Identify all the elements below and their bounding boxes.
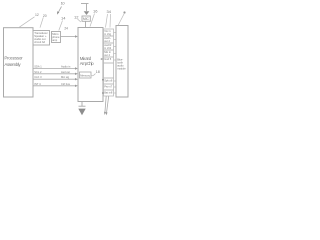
svg-text:INT 4: INT 4 [34, 82, 41, 86]
svg-text:Gnd 5: Gnd 5 [104, 57, 112, 61]
svg-text:Ctrl bus: Ctrl bus [61, 82, 71, 86]
svg-text:MIC: MIC [83, 17, 90, 21]
svg-text:Processor: Processor [4, 55, 23, 60]
svg-text:20: 20 [43, 14, 47, 18]
svg-text:in chg: in chg [104, 32, 111, 36]
svg-text:Memory: Memory [80, 74, 90, 78]
svg-text:CLK 3: CLK 3 [34, 75, 42, 79]
svg-text:Bat in8: Bat in8 [104, 90, 113, 94]
svg-text:16: 16 [93, 9, 98, 14]
svg-text:Aud out: Aud out [61, 70, 70, 74]
svg-text:18: 18 [96, 70, 100, 74]
svg-text:14: 14 [61, 16, 66, 21]
svg-text:in ch3: in ch3 [104, 46, 111, 50]
svg-text:24: 24 [64, 26, 68, 30]
svg-text:SCL 2: SCL 2 [34, 70, 42, 74]
svg-text:out 2: out 2 [104, 39, 110, 43]
svg-text:12: 12 [74, 15, 79, 20]
svg-text:10: 10 [61, 1, 66, 6]
svg-text:Spk o6: Spk o6 [104, 78, 113, 82]
svg-text:circuit bd: circuit bd [34, 40, 45, 44]
svg-text:Mic sig: Mic sig [61, 75, 70, 79]
svg-text:Audio in: Audio in [61, 64, 71, 68]
svg-text:12: 12 [35, 13, 39, 17]
svg-text:amp: amp [52, 39, 58, 42]
svg-text:SDA 1: SDA 1 [34, 64, 42, 68]
svg-text:34: 34 [107, 9, 112, 14]
svg-text:Pwr s7: Pwr s7 [104, 84, 112, 88]
svg-text:Assembly: Assembly [4, 62, 21, 67]
svg-text:out 4: out 4 [104, 53, 110, 57]
svg-text:Amp Chip: Amp Chip [80, 61, 94, 66]
svg-text:module: module [117, 66, 126, 70]
